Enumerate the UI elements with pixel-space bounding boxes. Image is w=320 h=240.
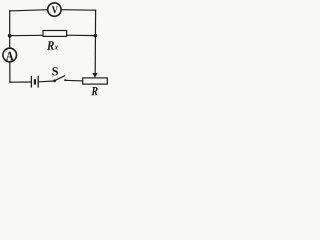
wire bottom-left horizontal (corner to battery) [10, 81, 30, 83]
rheostat R box [83, 78, 108, 84]
ammeter U2 circle [3, 48, 17, 62]
voltmeter U1 circle [48, 3, 61, 16]
wire left vertical upper (corner to ammeter) [9, 11, 11, 48]
wire battery to switch [39, 80, 54, 83]
wire switch to rheostat R [65, 79, 83, 82]
wire top-left horizontal (corner to voltmeter) [10, 10, 48, 12]
resistor Rx box [43, 31, 67, 37]
switch S label [52, 67, 58, 75]
junction dot right (node between right wire and Ra branch) [94, 34, 98, 38]
wire right vertical (top-right corner down to slider arrow) [94, 10, 96, 73]
wire middle branch right (Ra box to right junction) [67, 34, 96, 36]
resistor Rx label subscript x [55, 46, 58, 50]
resistor Rx label [47, 41, 54, 50]
battery B1 cell long plate right [37, 76, 39, 88]
ammeter U2 letter A [6, 52, 14, 61]
battery B1 short thick plate [34, 79, 36, 84]
rheostat R slider arrowhead [92, 73, 97, 78]
rheostat R label [91, 87, 97, 95]
switch S pivot dot [53, 79, 56, 82]
switch S lever [55, 76, 65, 81]
wire top-right horizontal (voltmeter to top-right corner) [62, 9, 96, 12]
wire left vertical lower (ammeter to bottom-left corner) [9, 62, 11, 82]
junction dot left (node between ammeter and Ra branch) [8, 34, 12, 38]
wire middle branch left (junction to Ra box) [10, 34, 43, 36]
voltmeter U1 letter V [52, 6, 58, 13]
switch S contact dot [64, 79, 66, 81]
battery B1 cell long plate left [30, 76, 32, 88]
